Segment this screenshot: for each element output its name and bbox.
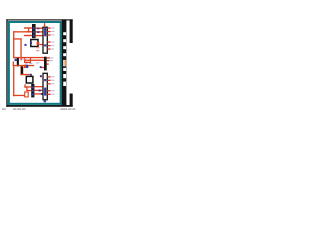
sheet outer black frame xyxy=(6,19,72,107)
header JA (digital) xyxy=(43,23,51,53)
header J2 xyxy=(24,84,43,98)
board edge (teal) xyxy=(8,21,62,105)
USB connector top right xyxy=(70,19,73,43)
header JC (analog) xyxy=(40,73,51,102)
header J3 (power bar) xyxy=(40,57,50,71)
header J1 xyxy=(32,24,36,38)
wire trace loop left of J1 xyxy=(24,27,32,36)
pad labels xyxy=(36,47,39,51)
transistor Q2 body xyxy=(20,65,32,76)
resistor R1 red outline xyxy=(24,57,44,63)
switch S1 xyxy=(30,40,43,47)
switch S2 xyxy=(26,76,33,83)
left long wire xyxy=(13,66,24,96)
via xyxy=(24,44,26,46)
pin labels JA xyxy=(51,27,54,49)
labels near Q1 xyxy=(22,59,40,65)
wire from left edge xyxy=(13,31,24,60)
resistor R2 red outline xyxy=(25,92,29,97)
connector J4 right stacking header xyxy=(62,19,67,106)
wires J1 to header JA xyxy=(36,28,43,37)
transistor Q1 cluster xyxy=(13,57,44,68)
pin labels JC xyxy=(50,57,55,94)
caption text under sheet xyxy=(2,109,75,110)
power jack bottom right xyxy=(70,94,73,107)
